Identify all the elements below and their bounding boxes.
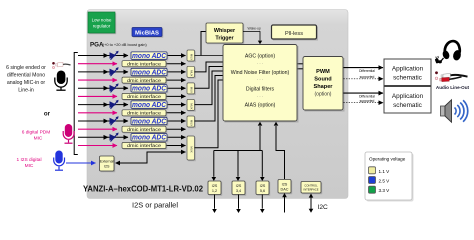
speaker icon bbox=[441, 100, 468, 122]
wire I2S 1,2 out bbox=[212, 195, 217, 214]
mono ADC 4 bbox=[131, 101, 168, 110]
svg-text:schematic: schematic bbox=[393, 75, 423, 82]
application schematic block 2 bbox=[384, 87, 431, 114]
mono ADC 3 bbox=[131, 85, 168, 94]
mux M3 bbox=[187, 83, 196, 95]
dmic interface 2 bbox=[122, 77, 167, 84]
I2S DAC block bbox=[278, 180, 292, 195]
mux M5 bbox=[187, 116, 196, 128]
svg-text:1,2: 1,2 bbox=[212, 189, 217, 193]
low noise regulator U-REG bbox=[88, 12, 116, 34]
chip body background bbox=[87, 10, 348, 199]
svg-text:Operating voltage: Operating voltage bbox=[369, 157, 406, 162]
dmic interface 1 bbox=[122, 61, 167, 68]
svg-text:MUX: MUX bbox=[190, 120, 194, 126]
svg-text:mono ADC: mono ADC bbox=[132, 135, 167, 142]
svg-text:or: or bbox=[44, 111, 51, 118]
svg-text:mono ADC: mono ADC bbox=[132, 69, 167, 76]
svg-text:CONTROL: CONTROL bbox=[304, 183, 318, 187]
svg-text:1.1 V: 1.1 V bbox=[379, 169, 391, 174]
wire I2S DAC in bbox=[282, 193, 287, 213]
svg-text:mono ADC: mono ADC bbox=[132, 86, 167, 93]
control interface block bbox=[301, 182, 322, 195]
wire mux6 to DSP bbox=[195, 80, 224, 148]
svg-text:I2C: I2C bbox=[318, 204, 328, 211]
svg-text:INTERFACE: INTERFACE bbox=[303, 187, 318, 191]
svg-text:I2S: I2S bbox=[260, 184, 266, 188]
mux M4 bbox=[187, 99, 196, 111]
PDM mic label bbox=[22, 130, 51, 142]
wire external I2S to MUX6 bbox=[115, 152, 186, 165]
svg-text:3.3 V: 3.3 V bbox=[379, 188, 391, 193]
svg-text:External: External bbox=[100, 160, 114, 164]
wire mic row 2 bbox=[78, 70, 186, 75]
PGA gain label bbox=[90, 42, 147, 49]
wire mic row 1 bbox=[78, 53, 186, 58]
MicBIAS block bbox=[132, 28, 163, 38]
PWM sound shaper block bbox=[303, 57, 345, 112]
svg-text:mono ADC: mono ADC bbox=[132, 102, 167, 109]
mono ADC 5 bbox=[131, 117, 168, 126]
svg-text:Low noise: Low noise bbox=[92, 18, 112, 23]
svg-text:MUX: MUX bbox=[190, 70, 194, 76]
PGA amp A5 bbox=[110, 116, 119, 125]
svg-text:I2S: I2S bbox=[236, 184, 242, 188]
PGA amp A4 bbox=[110, 100, 119, 109]
wire dmic row 6 bbox=[78, 145, 186, 147]
I2S mic icon (blue) bbox=[54, 151, 65, 171]
svg-text:Shaper: Shaper bbox=[314, 84, 334, 90]
svg-text:analog MIC-in or: analog MIC-in or bbox=[7, 80, 46, 86]
I2S 3,4 block bbox=[232, 181, 246, 196]
mono ADC 1 bbox=[131, 52, 168, 61]
mux M2 bbox=[187, 66, 196, 78]
svg-text:Application: Application bbox=[392, 93, 424, 100]
I2C label bbox=[318, 204, 328, 211]
I2S mic label bbox=[16, 157, 41, 169]
wire DSP to PWM b bbox=[297, 68, 303, 70]
svg-text:YANZI-A–hexCOD-MT1-LR-VD.02: YANZI-A–hexCOD-MT1-LR-VD.02 bbox=[83, 185, 204, 194]
wire DSP to I2S bus bbox=[214, 122, 262, 151]
svg-text:regulator: regulator bbox=[93, 24, 111, 29]
wire PWM diff pair 2b bbox=[344, 102, 384, 104]
svg-text:(+0 to +20 dB boost gain): (+0 to +20 dB boost gain) bbox=[103, 42, 148, 47]
wire mux1 to DSP and whisper tap bbox=[195, 32, 224, 56]
svg-text:dmic interface: dmic interface bbox=[127, 127, 162, 132]
wire mux2 to DSP bbox=[195, 62, 224, 72]
or label bbox=[44, 111, 51, 118]
wire mux4 to DSP bbox=[195, 71, 224, 105]
whisper trigger block bbox=[206, 23, 244, 44]
wire bus drop I2S 1,2 bbox=[212, 151, 217, 182]
wire mic row 6 bbox=[78, 135, 186, 140]
svg-text:Differential: Differential bbox=[359, 94, 375, 98]
mux M6 bbox=[187, 136, 196, 161]
svg-text:mono ADC: mono ADC bbox=[132, 118, 167, 125]
svg-text:I2S: I2S bbox=[212, 184, 218, 188]
wire bus drop I2S 5,6 bbox=[260, 151, 265, 182]
PGA amp A6 bbox=[110, 133, 119, 142]
wire dmic row 4 bbox=[78, 112, 186, 114]
svg-text:Sound: Sound bbox=[314, 77, 332, 83]
svg-text:5,6: 5,6 bbox=[260, 189, 265, 193]
dmic interface 5 bbox=[122, 126, 167, 133]
svg-text:Wake-up: Wake-up bbox=[248, 27, 262, 31]
dmic interface 4 bbox=[122, 110, 167, 117]
label differential supported 2 bbox=[359, 94, 375, 103]
svg-text:MUX: MUX bbox=[190, 87, 194, 93]
wire whisper wake-up bbox=[243, 27, 262, 45]
svg-text:differential Mono: differential Mono bbox=[7, 73, 45, 79]
I2S or parallel label bbox=[132, 203, 178, 210]
svg-text:PWM: PWM bbox=[316, 69, 330, 75]
headset icon bbox=[435, 41, 462, 64]
mono ADC 6 bbox=[131, 134, 168, 143]
svg-text:Differential: Differential bbox=[359, 69, 375, 73]
svg-text:· · ·: · · · bbox=[257, 61, 264, 66]
wire PWM diff pair 2a bbox=[344, 92, 384, 94]
I2S 1,2 block bbox=[208, 181, 222, 196]
I2S 5,6 block bbox=[256, 181, 270, 196]
svg-text:dmic interface: dmic interface bbox=[127, 94, 162, 99]
svg-text:schematic: schematic bbox=[393, 102, 423, 109]
svg-text:I2S: I2S bbox=[104, 165, 110, 169]
svg-text:Wind Noise Filter (option): Wind Noise Filter (option) bbox=[231, 70, 290, 76]
wire mic row 5 bbox=[78, 119, 186, 124]
DSP block U-DSP bbox=[223, 45, 299, 123]
svg-text:Line-in: Line-in bbox=[18, 88, 34, 94]
svg-text:· · ·: · · · bbox=[257, 77, 264, 82]
analog mic icon (black) bbox=[55, 71, 67, 91]
input group bracket bbox=[74, 53, 78, 155]
wire I2S 3,4 out bbox=[236, 195, 241, 214]
svg-text:MicBIAS: MicBIAS bbox=[135, 30, 159, 36]
chip title bbox=[83, 185, 204, 194]
PGA amp A1 bbox=[110, 51, 119, 60]
svg-text:Application: Application bbox=[392, 66, 424, 73]
external I2S block bbox=[100, 156, 116, 172]
wire I2C bidirectional bbox=[309, 194, 314, 213]
PGA amp A2 bbox=[110, 67, 119, 76]
svg-text:6 single ended or: 6 single ended or bbox=[6, 65, 46, 71]
wire mux5 to DSP bbox=[195, 76, 224, 122]
dmic interface 6 bbox=[122, 143, 167, 150]
wire mic row 3 bbox=[78, 86, 186, 91]
svg-text:MUX: MUX bbox=[190, 146, 194, 152]
line-in connector icon bbox=[52, 62, 70, 69]
PDM mic icon (magenta) bbox=[63, 124, 74, 143]
dmic interface 3 bbox=[122, 93, 167, 100]
svg-text:dmic interface: dmic interface bbox=[127, 111, 162, 116]
wire PWM diff pair 1b bbox=[344, 78, 384, 80]
MUX blocks bbox=[187, 50, 196, 161]
svg-text:MIC: MIC bbox=[25, 163, 34, 169]
svg-text:Pll-less: Pll-less bbox=[285, 31, 303, 37]
svg-text:supported: supported bbox=[360, 99, 375, 103]
svg-text:dmic interface: dmic interface bbox=[127, 78, 162, 83]
wire mic row 4 bbox=[78, 102, 186, 107]
svg-text:mono ADC: mono ADC bbox=[132, 53, 167, 60]
audio line-out icon bbox=[435, 71, 469, 90]
svg-text:I2S or parallel: I2S or parallel bbox=[132, 203, 178, 210]
svg-text:Audio Line-Out: Audio Line-Out bbox=[436, 85, 470, 90]
svg-text:Whisper: Whisper bbox=[214, 28, 236, 34]
PGA amp A3 bbox=[110, 83, 119, 92]
svg-text:1 I2S digital: 1 I2S digital bbox=[16, 157, 41, 163]
svg-text:6 digital PDM: 6 digital PDM bbox=[22, 130, 51, 136]
application schematic block 1 bbox=[384, 59, 431, 86]
svg-text:AIAS (option): AIAS (option) bbox=[245, 103, 276, 109]
svg-text:· · ·: · · · bbox=[257, 94, 264, 99]
wire dmic row 2 bbox=[78, 79, 186, 81]
analog input label bbox=[6, 65, 46, 94]
wire dmic row 5 bbox=[78, 128, 186, 130]
svg-text:2.5 V: 2.5 V bbox=[379, 179, 391, 184]
wire PWM diff pair 1a bbox=[344, 67, 384, 69]
svg-text:MUX: MUX bbox=[190, 54, 194, 60]
mono ADC 2 bbox=[131, 68, 168, 77]
svg-text:dmic interface: dmic interface bbox=[127, 143, 162, 148]
analog input rows (mono ADC channels) bbox=[78, 51, 186, 150]
svg-text:(option): (option) bbox=[315, 92, 332, 98]
wire I2S 5,6 out bbox=[260, 195, 265, 214]
svg-text:3,4: 3,4 bbox=[236, 189, 241, 193]
svg-text:dmic interface: dmic interface bbox=[127, 61, 162, 66]
wire I2S DAC to DSP bbox=[274, 122, 285, 179]
svg-text:I2S: I2S bbox=[282, 182, 288, 186]
wire bus drop I2S 3,4 bbox=[236, 151, 241, 182]
svg-text:AGC (option): AGC (option) bbox=[245, 54, 276, 60]
PLL-less block bbox=[272, 25, 319, 41]
wire I2S mic to external I2S bbox=[66, 162, 96, 164]
svg-text:MUX: MUX bbox=[190, 103, 194, 109]
svg-text:Digital filters: Digital filters bbox=[246, 87, 275, 93]
wire mux3 to DSP bbox=[195, 67, 224, 89]
svg-text:supported: supported bbox=[360, 75, 375, 79]
label differential supported 1 bbox=[359, 69, 375, 79]
wire DSP to PWM a bbox=[297, 63, 303, 65]
svg-text:MIC: MIC bbox=[34, 136, 43, 142]
wire dmic row 3 bbox=[78, 95, 186, 97]
wire dmic row 1 bbox=[78, 63, 186, 65]
svg-text:DAC: DAC bbox=[280, 188, 288, 192]
mux M1 bbox=[187, 50, 196, 62]
svg-text:Trigger: Trigger bbox=[215, 36, 234, 42]
operating voltage legend bbox=[365, 152, 414, 202]
